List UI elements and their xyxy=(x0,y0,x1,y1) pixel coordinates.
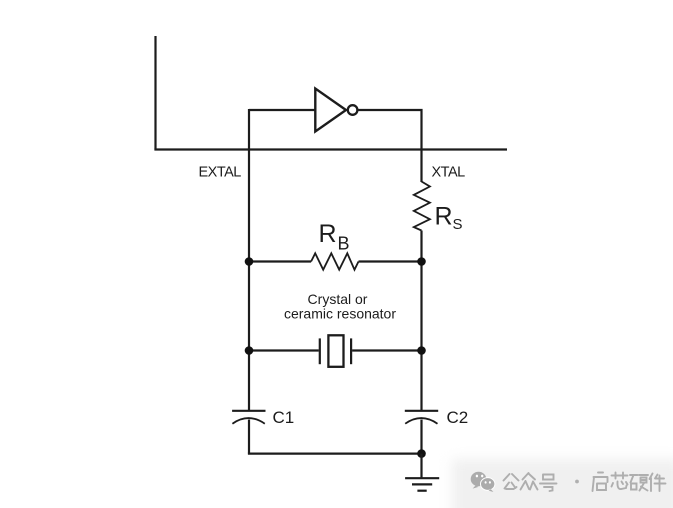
watermark background tint xyxy=(452,459,673,508)
inverter U1 output bubble xyxy=(348,105,358,115)
capacitor C2 curved plate xyxy=(405,418,437,424)
wire: chip boundary horizontal xyxy=(154,148,507,150)
node: ground junction xyxy=(417,449,426,458)
svg-text:C1: C1 xyxy=(273,408,295,427)
char 件 xyxy=(650,474,666,492)
svg-text:C2: C2 xyxy=(447,408,469,427)
crystal Y1 right plate xyxy=(350,338,352,364)
char 众 xyxy=(521,473,538,490)
wire: crystal right lead xyxy=(352,349,421,351)
wire: inverter input from EXTAL node xyxy=(249,109,315,111)
resistor RB zigzag xyxy=(311,253,358,269)
op-amp inverter U1 triangle xyxy=(315,89,346,132)
crystal Y1 left plate xyxy=(319,338,321,364)
watermark text 公众号·启芯硬件 (drawn strokes) xyxy=(504,473,666,492)
wire: RB left lead xyxy=(249,260,311,262)
middle dot xyxy=(575,480,579,484)
svg-text:EXTAL: EXTAL xyxy=(199,165,242,181)
char 硬 xyxy=(630,475,648,491)
svg-text:ceramic resonator: ceramic resonator xyxy=(284,305,396,321)
wire: XTAL vertical below RS xyxy=(420,231,422,411)
wire: C1 bottom lead xyxy=(248,420,250,454)
capacitor C2 top plate xyxy=(405,410,438,412)
wire: ground stem xyxy=(420,454,422,478)
svg-text:XTAL: XTAL xyxy=(432,164,466,180)
crystal Y1 body xyxy=(328,335,343,367)
wire: EXTAL vertical xyxy=(248,109,250,411)
wire: RB right lead xyxy=(359,260,422,262)
resistor RS zigzag xyxy=(414,182,430,231)
node: EXTAL-crystal junction xyxy=(245,346,254,355)
capacitor C1 top plate xyxy=(232,410,265,412)
wire: bottom rail xyxy=(248,453,422,455)
node: XTAL-crystal junction xyxy=(417,346,426,355)
wire: crystal left lead xyxy=(249,349,319,351)
char 号 xyxy=(540,475,557,492)
wire: inverter output to XTAL xyxy=(358,110,423,182)
ground symbol xyxy=(405,478,439,491)
node: XTAL-RB junction xyxy=(417,257,426,266)
wire: chip boundary vertical xyxy=(154,36,156,150)
node: EXTAL-RB junction xyxy=(245,257,254,266)
char 启 xyxy=(593,473,608,492)
capacitor C1 curved plate xyxy=(232,418,264,424)
wire: C2 bottom lead xyxy=(420,420,422,454)
char 芯 xyxy=(612,473,628,490)
watermark wechat icon xyxy=(471,472,495,492)
char 公 xyxy=(504,474,519,489)
